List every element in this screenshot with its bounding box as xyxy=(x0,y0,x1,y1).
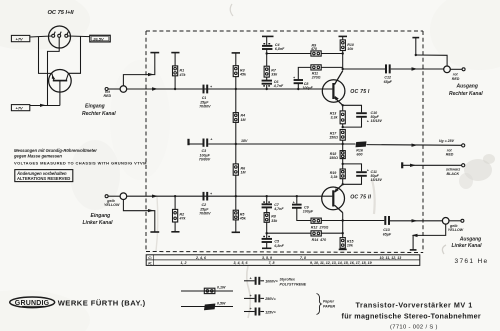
transistor right lead xyxy=(66,73,68,80)
capacitor C10 xyxy=(343,105,383,127)
svg-text:7, 8: 7, 8 xyxy=(269,261,275,265)
svg-text:schwarz: schwarz xyxy=(446,167,460,171)
resistor R2 xyxy=(173,196,187,232)
ground bar R2 xyxy=(171,231,179,233)
wire rail to Ug terminal xyxy=(367,144,462,147)
capacitor C6 xyxy=(262,77,284,89)
input terminal lower (gelb) xyxy=(120,193,127,200)
transistor bar xyxy=(53,80,67,82)
svg-text:Linker Kanal: Linker Kanal xyxy=(452,243,483,249)
svg-text:WERKE FÜRTH (BAY.): WERKE FÜRTH (BAY.) xyxy=(58,299,146,308)
svg-text:OC 75 I+II: OC 75 I+II xyxy=(48,10,74,16)
junction rail R17/R18 xyxy=(342,143,344,145)
resistor R16 xyxy=(356,141,367,156)
wire output line upper xyxy=(343,68,385,70)
transistor T2 OC 75 II xyxy=(322,184,372,212)
alterations box xyxy=(15,170,73,182)
svg-text:Eingang: Eingang xyxy=(91,213,111,219)
ground bar shield lower xyxy=(150,231,159,233)
capacitor C3 xyxy=(199,138,214,162)
ground bar R1 xyxy=(171,52,179,54)
svg-text:70/80V: 70/80V xyxy=(199,105,211,109)
junction R13/R17 xyxy=(342,126,344,128)
svg-text:gegen Masse gemessen: gegen Masse gemessen xyxy=(13,154,62,159)
wire pin to terminal xyxy=(108,195,120,197)
svg-text:Styroflex: Styroflex xyxy=(280,278,296,282)
resistor R12 xyxy=(311,218,343,229)
svg-text:VOLTAGES MEASURED TO CHASSIS W: VOLTAGES MEASURED TO CHASSIS WITH GRUNDI… xyxy=(14,161,147,166)
arrow schwarz xyxy=(410,164,416,167)
svg-text:Rechter Kanal: Rechter Kanal xyxy=(449,91,483,97)
capacitor C8 xyxy=(293,76,313,90)
capacitor C7 xyxy=(262,196,285,211)
input pin lower xyxy=(105,195,108,198)
junction feedback node lower xyxy=(266,232,268,234)
svg-text:45k: 45k xyxy=(239,73,247,77)
resistor legend 0.5W xyxy=(181,301,233,310)
resistor R17 xyxy=(329,130,345,145)
capacitor C1 xyxy=(199,85,213,109)
ground bar C5 xyxy=(262,247,271,249)
ground bar R15 xyxy=(339,248,347,250)
svg-text:POLYSTYRENE: POLYSTYRENE xyxy=(280,283,307,287)
resistor R14 xyxy=(311,231,343,242)
wire R11 right xyxy=(321,66,343,68)
cap legend paper 250V xyxy=(244,294,277,302)
svg-text:65µF: 65µF xyxy=(384,80,393,84)
svg-text:65µF: 65µF xyxy=(383,232,392,236)
wire right drop xyxy=(69,36,81,73)
svg-text:RED: RED xyxy=(446,153,454,157)
transistor center lead down xyxy=(59,81,61,106)
capacitor C2 xyxy=(199,192,213,216)
junction R5/line xyxy=(235,195,237,197)
svg-text:Messungen mit Grundig-Röhrenvo: Messungen mit Grundig-Röhrenvoltmeter xyxy=(14,148,97,153)
svg-text:100µF: 100µF xyxy=(303,210,314,214)
wire schwarz xyxy=(402,164,461,166)
svg-text:15/18V: 15/18V xyxy=(371,119,383,123)
voltage box +4.7V top xyxy=(11,35,29,41)
wire output line lower xyxy=(343,220,385,222)
ground bar R10 xyxy=(339,35,348,37)
ground bar C4 xyxy=(262,35,274,37)
wire rail xyxy=(208,143,355,145)
svg-text:470: 470 xyxy=(310,47,317,51)
junction R14 node xyxy=(342,232,344,234)
wire center pin step xyxy=(48,37,60,105)
capacitor C13 xyxy=(383,216,392,236)
junction C6/line xyxy=(266,88,268,90)
arrow crossing boundary xyxy=(152,87,158,90)
svg-text:1, 2: 1, 2 xyxy=(181,261,187,265)
wire shield upper xyxy=(123,53,154,86)
svg-text:45k: 45k xyxy=(239,217,247,221)
svg-text:250V=: 250V= xyxy=(264,297,276,301)
wire R9 to node xyxy=(321,53,343,55)
wire left drop xyxy=(39,37,52,74)
svg-text:18V: 18V xyxy=(241,139,248,143)
capacitor C4 xyxy=(262,37,285,54)
transistor Q pictorial circle xyxy=(49,70,72,93)
input terminal upper (rot) xyxy=(120,86,127,93)
ground bar C3 xyxy=(187,139,189,145)
svg-text:7, 8: 7, 8 xyxy=(300,256,306,260)
output shield stub xyxy=(412,38,447,66)
svg-text:270Ω: 270Ω xyxy=(311,76,321,80)
svg-text:BLACK: BLACK xyxy=(447,172,460,176)
junction R9/R10 xyxy=(342,52,344,54)
svg-text:3, 4, 5, 6: 3, 4, 5, 6 xyxy=(234,261,249,265)
capacitor C11 xyxy=(343,164,383,184)
capacitor C9 xyxy=(292,196,314,213)
junction R18/R19 xyxy=(342,163,344,165)
dashed boundary left xyxy=(145,31,147,252)
svg-text:47k: 47k xyxy=(179,217,187,221)
svg-text:Ug = 28V: Ug = 28V xyxy=(439,139,455,143)
svg-text:10k: 10k xyxy=(347,47,354,51)
wire pin to terminal xyxy=(108,88,120,90)
svg-text:Ausgang: Ausgang xyxy=(456,84,478,90)
svg-text:3,3k: 3,3k xyxy=(331,116,339,120)
wire signal line lower xyxy=(127,195,333,197)
svg-text:600: 600 xyxy=(357,153,363,157)
ground bar R5 xyxy=(232,231,240,233)
wire C13 to terminal xyxy=(390,220,442,222)
junction emitter xyxy=(342,104,344,106)
resistor R15 xyxy=(340,238,354,250)
svg-text:9, 10, 11, 12, 13, 14, 15, 16,: 9, 10, 11, 12, 13, 14, 15, 16, 17, 18, 1… xyxy=(310,261,372,265)
svg-text:125V=: 125V= xyxy=(265,310,276,314)
dashed boundary bottom xyxy=(146,252,423,253)
svg-text:150Ω: 150Ω xyxy=(329,136,338,140)
arrow on bottom wire xyxy=(40,104,46,107)
arrow output lower xyxy=(412,219,418,222)
svg-text:3, 5, 9: 3, 5, 9 xyxy=(262,256,272,260)
junction R1/line xyxy=(174,88,176,90)
resistor R4 xyxy=(233,89,246,144)
svg-text:2, 4, 6: 2, 4, 6 xyxy=(195,256,207,260)
svg-text:Rechter Kanal: Rechter Kanal xyxy=(82,111,116,117)
wire node to R9 xyxy=(267,53,311,55)
junction R3/R4 xyxy=(235,88,237,90)
junction C8/line xyxy=(297,88,299,90)
junction R2/line xyxy=(174,195,176,197)
ground stub schwarz xyxy=(401,162,403,168)
resistor legend 0.1W xyxy=(181,286,233,294)
resistor R9 xyxy=(310,43,321,56)
svg-text:70/80V: 70/80V xyxy=(199,212,211,216)
dashed boundary top xyxy=(146,30,423,32)
svg-text:10, 11, 12, 13: 10, 11, 12, 13 xyxy=(380,256,402,260)
wire shield lower xyxy=(123,200,154,232)
resistor R10 xyxy=(340,37,354,54)
svg-text:GRUNDIG: GRUNDIG xyxy=(15,300,50,307)
input pin upper xyxy=(105,88,108,91)
wire C12 to terminal xyxy=(391,68,444,70)
socket U1 circle xyxy=(49,26,71,48)
output terminal lower (gelb) xyxy=(442,218,449,225)
wire collector column xyxy=(342,54,344,71)
voltage box 26.5V xyxy=(90,35,110,42)
svg-text:3,3k: 3,3k xyxy=(331,175,339,179)
capacitor C12 xyxy=(384,64,393,83)
ground bar shield upper xyxy=(150,52,159,54)
junction emitter lower xyxy=(342,183,344,185)
dashed boundary right xyxy=(422,31,424,253)
resistor R11 xyxy=(311,65,321,80)
junction rail R4/R6 xyxy=(235,143,237,145)
svg-text:+7V: +7V xyxy=(16,36,24,41)
wire signal line upper xyxy=(127,88,333,90)
wire collector to output line xyxy=(342,213,344,238)
capacitor C5 xyxy=(262,233,285,248)
svg-text:für magnetische Stereo-Tonabne: für magnetische Stereo-Tonabnehmer xyxy=(342,311,481,320)
svg-text:(7710 - 002 / S ): (7710 - 002 / S ) xyxy=(390,324,438,330)
svg-text:470: 470 xyxy=(319,238,326,242)
junction output node xyxy=(342,68,344,70)
svg-text:6,8nF: 6,8nF xyxy=(275,47,285,51)
wire rail left xyxy=(189,143,203,145)
ground bar R3 xyxy=(232,52,240,54)
arrow rail xyxy=(412,144,418,147)
svg-text:0,5W: 0,5W xyxy=(217,301,226,305)
arrow on shield lower xyxy=(148,209,154,212)
brace papier xyxy=(317,294,322,315)
output shield lower xyxy=(410,224,446,250)
svg-text:+7V: +7V xyxy=(16,106,24,111)
svg-text:RED: RED xyxy=(452,77,460,81)
wire box to socket xyxy=(30,36,52,37)
junction C7/line xyxy=(266,195,268,197)
resistor R1 xyxy=(173,53,187,89)
svg-text:33k: 33k xyxy=(271,73,278,77)
resistor R8 xyxy=(264,208,278,233)
resistor R3 xyxy=(233,53,247,89)
output pin upper xyxy=(450,68,465,71)
svg-text:R12: R12 xyxy=(311,225,318,229)
svg-text:OC 75 II: OC 75 II xyxy=(350,195,371,201)
voltage box +4.7V bottom xyxy=(11,105,29,111)
resistor R13 xyxy=(330,105,346,127)
GRUNDIG logo xyxy=(10,297,146,308)
svg-text:Eingang: Eingang xyxy=(85,104,105,110)
wire socket to 26.5V box xyxy=(68,35,90,38)
svg-text:150Ω: 150Ω xyxy=(329,156,338,160)
svg-text:RED: RED xyxy=(104,94,112,98)
emitter arrow xyxy=(52,75,56,80)
wire C9 to R12 xyxy=(297,208,311,220)
output pin lower xyxy=(449,219,464,222)
resistor R19 xyxy=(330,164,346,184)
svg-text:1000V=: 1000V= xyxy=(265,280,278,284)
component location table xyxy=(146,255,420,266)
resistor R7 xyxy=(264,54,278,78)
svg-text:Ausgang: Ausgang xyxy=(459,236,481,242)
junction C9/line xyxy=(296,195,298,197)
wire bottom box to leads xyxy=(30,105,60,107)
svg-text:15/18V: 15/18V xyxy=(371,178,383,182)
arrow crossing boundary lower xyxy=(152,195,158,198)
svg-text:4,7nF: 4,7nF xyxy=(273,207,284,211)
arrow output upper xyxy=(412,67,418,70)
svg-text:10k: 10k xyxy=(347,244,354,248)
transistor left lead xyxy=(52,73,54,80)
svg-text:OC 75 I: OC 75 I xyxy=(350,89,370,95)
svg-text:ALTERATIONS RESERVED: ALTERATIONS RESERVED xyxy=(17,176,70,181)
wire node to R14 xyxy=(267,232,311,234)
wire R11 left to C8 xyxy=(298,67,311,79)
svg-text:33k: 33k xyxy=(271,219,278,223)
cap legend styroflex xyxy=(244,276,307,286)
svg-text:Papier: Papier xyxy=(323,299,335,303)
svg-text:26,5V: 26,5V xyxy=(92,36,104,41)
svg-text:YELLOW: YELLOW xyxy=(104,203,120,207)
schwarz terminal pin xyxy=(462,164,465,167)
svg-text:3761 He: 3761 He xyxy=(455,258,489,265)
resistor R6 xyxy=(233,144,246,196)
svg-text:YELLOW: YELLOW xyxy=(448,228,464,232)
svg-text:R14: R14 xyxy=(312,238,319,242)
resistor R5 xyxy=(233,196,247,232)
cap legend paper 125V xyxy=(244,307,277,315)
socket pin b xyxy=(58,32,62,38)
junction collector/output xyxy=(342,219,344,221)
svg-text:70/80V: 70/80V xyxy=(199,158,211,162)
transistor T1 OC 75 I xyxy=(322,71,370,106)
svg-text:PAPER: PAPER xyxy=(323,305,336,309)
svg-text:270Ω: 270Ω xyxy=(319,225,329,229)
svg-text:Transistor-Vorverstärker MV 1: Transistor-Vorverstärker MV 1 xyxy=(356,300,473,309)
junction C4/R7/R9 xyxy=(266,52,268,54)
svg-text:0,1W: 0,1W xyxy=(217,286,226,290)
svg-text:6,8nF: 6,8nF xyxy=(274,244,284,248)
socket pin c xyxy=(65,32,69,38)
output terminal upper (rot) xyxy=(444,66,451,73)
svg-text:47k: 47k xyxy=(179,73,187,77)
svg-text:100µF: 100µF xyxy=(302,86,313,90)
socket pin a xyxy=(52,32,56,38)
Ug terminal pin xyxy=(462,144,465,147)
svg-text:4,7nF: 4,7nF xyxy=(273,84,284,88)
svg-text:Linker Kanal: Linker Kanal xyxy=(83,220,114,226)
arrow on shield xyxy=(148,73,154,76)
resistor R18 xyxy=(329,144,345,164)
